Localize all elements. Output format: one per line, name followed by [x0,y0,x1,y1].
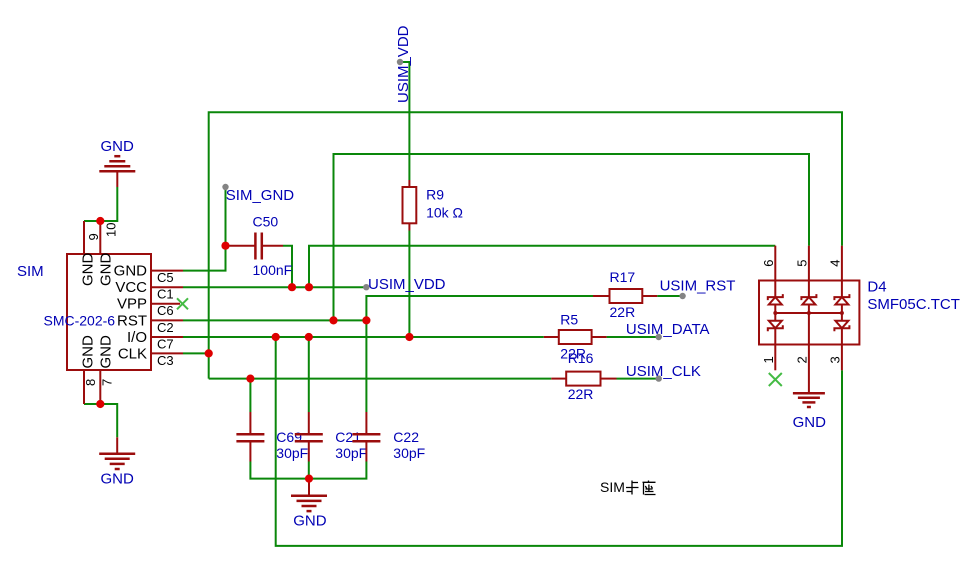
svg-text:7: 7 [99,379,114,386]
svg-text:SIM: SIM [17,263,44,280]
pin 9 [83,221,85,254]
svg-text:USIM_RST: USIM_RST [660,278,736,295]
pin C2 [151,319,183,321]
D4 internal TVS diode column 2 [801,281,816,345]
pin C5 [151,270,183,272]
svg-text:100nF: 100nF [253,262,293,278]
pin C7 [151,336,183,338]
junction RST row x=366.4 [362,316,370,324]
pin C3 [151,352,183,354]
wire GND: C21 bottom to bus [308,462,310,479]
svg-text:C1: C1 [157,287,174,302]
svg-text:C3: C3 [157,353,174,368]
svg-text:C69: C69 [276,429,302,445]
wire RST: row from pin C2 [183,319,366,321]
svg-text:30pF: 30pF [276,445,308,461]
ground symbol top-left (inverted) [99,156,135,187]
svg-text:30pF: 30pF [393,445,425,461]
pin 4 [841,246,843,281]
pin 2 [808,345,810,394]
ground symbol bottom-left [99,437,135,469]
svg-text:1: 1 [761,356,776,363]
label SIM卡座 [600,479,656,495]
svg-text:USIM_CLK: USIM_CLK [626,363,701,380]
wire GND: capacitor bottom bus [250,462,366,479]
svg-text:SMF05C.TCT: SMF05C.TCT [867,296,960,313]
svg-text:GND: GND [97,253,114,287]
resistor R16 [551,372,616,386]
svg-text:C2: C2 [157,320,174,335]
svg-text:GND: GND [114,263,148,280]
junction bottom pins 8/7 [96,400,104,408]
wire DATA: R5 output to USIM_DATA port [607,336,659,338]
svg-text:8: 8 [83,379,98,386]
junction CLK row x=208.7 [205,349,213,357]
svg-text:R17: R17 [610,269,636,285]
resistor R17 [593,289,657,303]
junction I/O row x=275.7 [272,333,280,341]
hanzi KA [626,481,639,495]
svg-text:C50: C50 [253,214,279,230]
svg-text:GND: GND [79,335,96,369]
svg-text:6: 6 [761,260,776,267]
junction VCC row x=309 [305,283,313,291]
wire VDD: C50 right corner down to VCC row [283,246,292,288]
pin C6 [151,303,180,305]
wire DATA: drop to bottom border and up to D4 pin 3 [276,337,842,546]
svg-text:5: 5 [795,260,810,267]
svg-text:D4: D4 [867,279,886,296]
svg-text:C22: C22 [393,429,419,445]
net port USIM_CLK [656,375,662,381]
svg-text:GND: GND [101,471,135,488]
svg-text:VCC: VCC [115,279,147,296]
pin 1 [774,345,776,371]
resistor R5 [544,330,607,344]
svg-text:GND: GND [101,138,135,155]
D4 internal common bus [773,311,844,315]
no-connect X on D4 pin 1 [769,373,782,386]
svg-text:10: 10 [104,223,119,237]
svg-text:R5: R5 [560,311,578,327]
svg-text:RST: RST [117,312,147,329]
svg-text:C5: C5 [157,270,174,285]
wire RST: R17 output to USIM_RST port [657,295,682,297]
junction CLK line C69 [246,375,254,383]
net port SIM_GND [222,184,228,190]
pin 10 [99,221,101,254]
svg-text:GND: GND [293,513,327,530]
capacitor C50 [227,233,283,260]
svg-text:C21: C21 [335,429,361,445]
wire VDD: USIM_VDD port down to R9 [400,62,409,180]
resistor R9 [403,180,417,231]
wire RST: riser to y=154 line and drop to D4 pin 5 [334,154,810,320]
svg-text:4: 4 [828,260,843,267]
svg-text:9: 9 [86,233,101,240]
wire CLK: R16 output to USIM_CLK port [617,378,659,380]
wire DATA: C21 top drop [308,337,310,412]
D4 internal TVS diodes column 1 [768,281,783,345]
svg-text:SMC-202-6: SMC-202-6 [44,313,116,329]
wire DATA: I/O row from pin C7 to R5 [183,336,544,338]
wire DATA: R9 bottom to I/O row [408,231,410,338]
wire VDD: riser from VCC row and line y=245.7 to D4 pin 6 [309,246,775,288]
svg-text:VPP: VPP [117,296,147,313]
wire CLK: horizontal line y=378.6 to R16 [209,378,552,380]
junction VCC row x=292 [288,283,296,291]
junction top pins 9/10 [96,217,104,225]
net port USIM_VDD middle [363,284,369,290]
net port USIM_VDD top (vertical) [397,59,403,65]
svg-text:C6: C6 [157,303,174,318]
wire GND: SIM_GND port down to pin C5 row [183,187,226,271]
pin 5 [808,246,810,281]
svg-text:22R: 22R [610,304,636,320]
wire CLK: pin C3 to junction at x=208.7 [183,352,209,354]
diode array D4 SMF05C.TCT [759,246,859,394]
svg-text:30pF: 30pF [335,445,367,461]
capacitor C21 [295,412,323,462]
net port USIM_RST [679,293,685,299]
svg-text:USIM_VDD: USIM_VDD [368,276,446,293]
capacitor C22 [352,412,380,462]
pin 7 [99,370,101,404]
net port USIM_DATA [656,334,662,340]
pin 3 [841,345,843,371]
svg-text:10k Ω: 10k Ω [426,205,463,221]
svg-text:GND: GND [793,414,827,431]
connector SIM (SMC-202-6) body [67,254,151,370]
svg-text:GND: GND [97,335,114,369]
svg-text:2: 2 [795,356,810,363]
ground symbol below caps [291,479,327,512]
wire GND: top ground to pins 9,10 [84,187,117,221]
hanzi ZUO [643,481,656,495]
junction RST row x=333.5 [329,316,337,324]
svg-text:CLK: CLK [118,345,147,362]
svg-text:SIM: SIM [600,479,625,495]
svg-text:3: 3 [828,356,843,363]
junction C50 left on SIM_GND wire [221,242,229,250]
svg-text:GND: GND [79,253,96,287]
svg-text:I/O: I/O [127,329,147,346]
wire RST: riser to R17 line [366,296,593,320]
svg-text:USIM_VDD: USIM_VDD [395,25,412,103]
ground symbol below D4 pin 2 [793,393,825,407]
svg-text:R9: R9 [426,187,444,203]
D4 internal TVS diodes column 3 [834,281,849,345]
pin 8 [83,370,85,404]
svg-text:SIM_GND: SIM_GND [226,187,295,204]
svg-text:22R: 22R [568,386,594,402]
wire GND: pins 8,7 to bottom ground [84,404,117,437]
svg-text:C7: C7 [157,336,174,351]
wire CLK: C69 top drop [249,379,251,412]
pin C1 [151,286,183,288]
pin 6 [774,246,776,281]
svg-text:USIM_DATA: USIM_DATA [626,321,710,338]
no-connect X on VPP pin [177,298,188,309]
junction I/O row x=409.4 [405,333,413,341]
wire RST: C22 top drop [365,320,367,412]
wire CLK: left riser, top border, right drop to D4 pin 4 [209,112,842,378]
capacitor C69 [236,412,264,462]
wire VDD: VCC row to USIM_VDD label [183,286,366,288]
junction I/O row x=308.8 [305,333,313,341]
junction cap bus GND [305,475,313,483]
svg-text:R16: R16 [568,350,594,366]
